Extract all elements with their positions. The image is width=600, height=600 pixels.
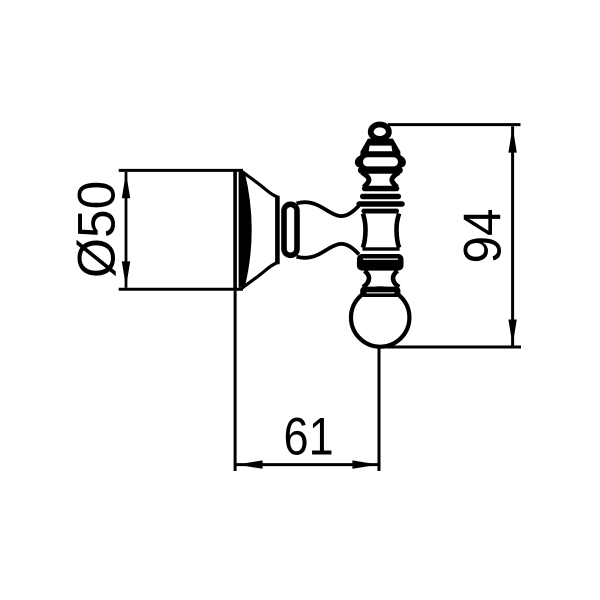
post ring line B2 — [361, 209, 399, 214]
svg-text:61: 61 — [284, 407, 334, 466]
wall rose bottom edge / extension line — [119, 288, 243, 291]
arm bottom profile — [297, 244, 360, 258]
ring collar on bell — [284, 204, 297, 255]
post neck2 sides — [363, 271, 399, 287]
post ring line below barrel — [362, 247, 399, 250]
post dome band3 — [358, 167, 403, 174]
bell top curve — [242, 172, 277, 197]
ball end — [351, 288, 409, 346]
post pagoda dome silhouette — [355, 139, 406, 168]
dimension 94 top extension line — [388, 123, 521, 126]
dimension 61 left arrow — [237, 460, 263, 468]
dimension 61 right extension line — [378, 349, 381, 472]
dimension 94 top arrow — [508, 127, 516, 153]
svg-text:Ø50: Ø50 — [68, 181, 127, 278]
dimension 94 text — [453, 209, 512, 264]
dimension 94 bottom arrow — [508, 320, 516, 346]
post ring line B — [360, 194, 401, 200]
post ring line A — [362, 186, 399, 192]
post top knob — [371, 125, 389, 139]
dimension 94 dim line — [511, 126, 514, 345]
dimension D50 text — [68, 181, 127, 278]
post neck sides — [362, 172, 399, 187]
post collar E above ball — [360, 287, 400, 297]
svg-text:94: 94 — [453, 209, 512, 264]
dimension 94 bottom extension line — [385, 346, 521, 349]
dimension 61 right arrow — [352, 460, 378, 468]
arm top profile — [297, 202, 360, 216]
dome white band 1 — [369, 146, 393, 152]
dimension D50 dim line — [125, 172, 128, 288]
dome white band 2 — [363, 157, 398, 166]
post collar C — [357, 254, 404, 271]
bell bottom curve — [242, 263, 277, 288]
dimension 61 left extension line — [234, 291, 237, 471]
dimension 61 dim line — [237, 463, 379, 466]
wall rose bell band — [239, 172, 251, 287]
dimension D50 top arrow — [122, 172, 130, 198]
dimension 61 text — [284, 407, 334, 466]
wall rose top edge / extension line — [119, 169, 243, 172]
post barrel sides — [363, 214, 399, 248]
post collar B — [356, 201, 404, 207]
wall rose rim line — [233, 169, 237, 291]
dimension D50 bottom arrow — [122, 261, 130, 287]
bell front edge — [275, 196, 280, 264]
